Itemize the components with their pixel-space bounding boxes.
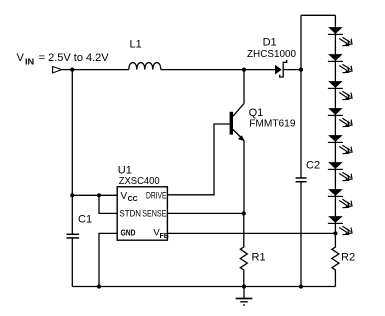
- capacitor C1: [67, 234, 80, 238]
- svg-text:GND: GND: [121, 228, 136, 237]
- svg-text:C1: C1: [78, 214, 92, 226]
- svg-text:C2: C2: [306, 159, 320, 171]
- node SENSE junction: [242, 211, 246, 215]
- wire left rail upper: [71, 70, 73, 235]
- inductor L1: [129, 63, 161, 70]
- ground: [236, 287, 253, 306]
- wire bottom rail: [72, 286, 335, 288]
- wire D1 to output node: [284, 69, 301, 71]
- node ground junction: [242, 284, 246, 288]
- svg-text:D1: D1: [263, 36, 277, 48]
- wire output vertical lower: [300, 182, 302, 287]
- transistor Q1: [230, 70, 245, 214]
- svg-text:IN: IN: [25, 57, 34, 66]
- node GND stub junction: [97, 284, 101, 288]
- pin VFB: [153, 228, 168, 240]
- wire base: [167, 124, 229, 195]
- svg-text:ZHCS1000: ZHCS1000: [247, 48, 296, 60]
- capacitor C2: [296, 178, 307, 182]
- wire GND pin: [99, 233, 117, 286]
- resistor R1: [240, 213, 247, 286]
- wire L1 to D1: [161, 69, 275, 71]
- svg-text:SENSE: SENSE: [142, 208, 166, 219]
- svg-text:= 2.5V to 4.2V: = 2.5V to 4.2V: [39, 52, 110, 64]
- svg-text:R2: R2: [341, 252, 355, 264]
- input terminal triangle: [53, 67, 62, 73]
- LED 7: [328, 189, 352, 208]
- label VIN = 2.5V to 4.2V: [17, 52, 110, 66]
- LED 3: [328, 81, 352, 100]
- node STDN tee: [97, 193, 101, 197]
- pin VCC: [121, 191, 138, 203]
- svg-text:V: V: [121, 191, 128, 202]
- svg-text:V: V: [17, 52, 25, 64]
- wire top rail: [301, 14, 335, 16]
- LED 8: [328, 216, 352, 235]
- svg-text:FB: FB: [160, 233, 169, 240]
- node output junction: [299, 68, 303, 72]
- LED 5: [328, 135, 352, 154]
- wire STDN stub: [99, 195, 117, 213]
- LED 1: [328, 27, 352, 46]
- wire LED chain vertical: [334, 15, 336, 233]
- svg-text:ZXSC400: ZXSC400: [119, 175, 160, 187]
- svg-text:STDN: STDN: [120, 208, 142, 219]
- node feedback junction: [333, 231, 337, 235]
- svg-text:CC: CC: [128, 196, 138, 203]
- wire output vertical upper: [300, 15, 302, 178]
- svg-text:L1: L1: [130, 39, 142, 51]
- LED 2: [328, 54, 352, 73]
- wire feedback VFB: [167, 232, 335, 234]
- LED 4: [328, 108, 352, 127]
- svg-text:FMMT619: FMMT619: [249, 118, 295, 130]
- wire left rail lower: [71, 238, 73, 287]
- LED 6: [328, 162, 352, 181]
- node VCC tee: [70, 193, 74, 197]
- svg-text:R1: R1: [252, 251, 266, 263]
- node collector junction: [242, 68, 246, 72]
- node input junction: [70, 68, 74, 72]
- op-amp U1 box: [117, 187, 167, 240]
- node C2 bottom junction: [299, 284, 303, 288]
- wire input to junction: [62, 69, 73, 71]
- wire SENSE: [167, 212, 243, 214]
- resistor R2: [332, 233, 339, 286]
- diode D1 (schottky): [275, 60, 287, 78]
- svg-text:DRIVE: DRIVE: [146, 190, 167, 201]
- wire junction to L1: [72, 69, 129, 71]
- wire VCC: [72, 194, 117, 196]
